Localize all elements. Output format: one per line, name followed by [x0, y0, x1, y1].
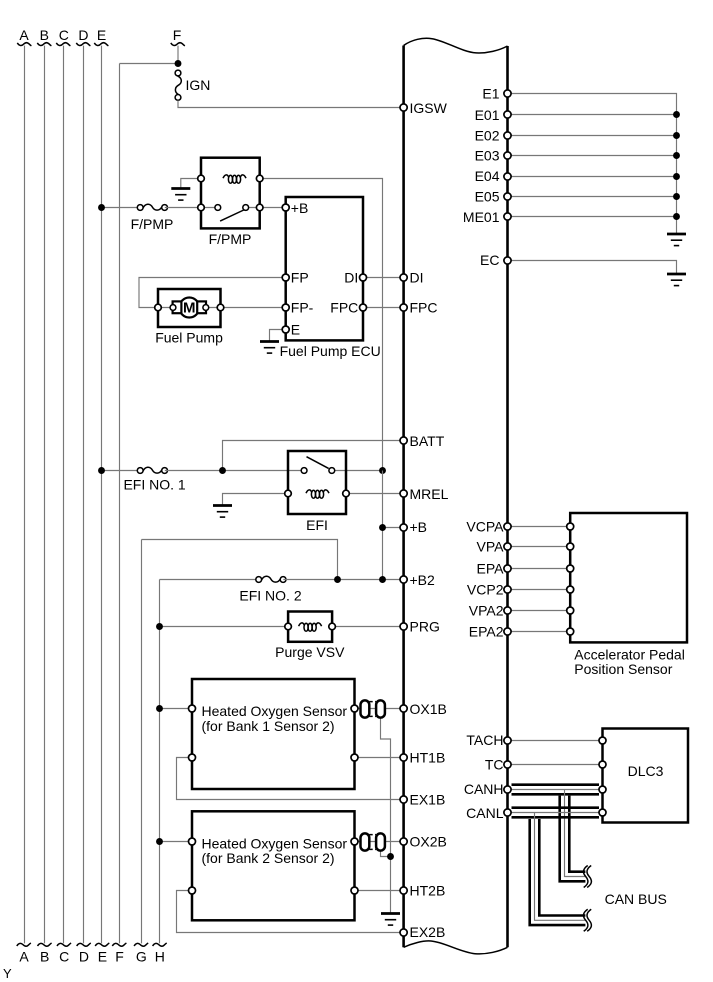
wire shield drain OX1B [381, 716, 391, 913]
wire sensor1 ground return to EX1B [177, 758, 404, 800]
svg-text:Fuel Pump: Fuel Pump [155, 330, 223, 346]
wire E01 [508, 114, 677, 116]
wire IGN to IGSW [178, 100, 404, 107]
wire ME01 [508, 216, 677, 218]
svg-text:EC: EC [480, 252, 499, 268]
wire CAN bus branch 1 shield [560, 796, 586, 882]
node junction E03 [673, 152, 680, 159]
wire CAN bus branch 2 shield [530, 819, 586, 925]
wire FP pin to fuel pump [139, 278, 286, 308]
wire H tap to sensor 2 [160, 841, 193, 843]
ground fuel pump ECU E [260, 342, 279, 354]
wire +B2 row [160, 579, 259, 581]
svg-text:(for Bank 1 Sensor 2): (for Bank 1 Sensor 2) [202, 718, 335, 734]
wire FPC to ECM [363, 307, 404, 309]
wire sensor2 to OX2B through shield connector [355, 841, 404, 843]
solenoid Purge VSV [288, 612, 332, 642]
svg-text:PRG: PRG [410, 619, 440, 635]
svg-text:H: H [155, 949, 165, 965]
ECM pin HT1B [400, 754, 407, 761]
node junction ME01 [673, 213, 680, 220]
node junction H/PRG [156, 623, 163, 630]
svg-text:E05: E05 [475, 189, 500, 205]
ground EFI relay coil [213, 506, 232, 518]
svg-text:IGSW: IGSW [410, 100, 448, 116]
wire +B tap [383, 527, 404, 529]
heated oxygen sensor bank2 box [192, 811, 355, 920]
wire sensor1 to OX1B through shield connector [355, 708, 404, 710]
svg-text:C: C [59, 27, 69, 43]
ECM pin E03 [504, 152, 511, 159]
svg-text:VCP2: VCP2 [467, 582, 504, 598]
wire E1 to ground bus [508, 94, 677, 217]
svg-text:EX2B: EX2B [410, 924, 446, 940]
fuse EFI NO. 2 [256, 576, 286, 582]
node junction E02 [673, 132, 680, 139]
node H (bottom connector) [153, 943, 167, 946]
svg-text:EPA2: EPA2 [469, 624, 504, 640]
wire fuse EFI NO.2 to +B2 pin [283, 579, 403, 581]
wire EPA [508, 568, 571, 570]
ECM pin EX2B [400, 929, 407, 936]
ECM pin OX1B [400, 705, 407, 712]
wire F horizontal to rail [120, 63, 179, 65]
svg-text:DLC3: DLC3 [628, 763, 664, 779]
wire CANL shield pair [512, 806, 600, 809]
node junction E01 [673, 111, 680, 118]
ECM pin PRG [400, 623, 407, 630]
svg-text:OX2B: OX2B [410, 834, 447, 850]
wire VPA2 [508, 610, 571, 612]
svg-text:D: D [79, 949, 89, 965]
wire E03 [508, 155, 677, 157]
svg-text:Fuel Pump ECU: Fuel Pump ECU [280, 343, 381, 359]
svg-text:E: E [291, 321, 300, 337]
wire EPA2 [508, 631, 571, 633]
ECM pin OX2B [400, 838, 407, 845]
coil of relay EFI [306, 490, 329, 498]
ground EC [667, 274, 686, 286]
heated oxygen sensor bank1 box [192, 679, 355, 789]
ECM pin E05 [504, 193, 511, 200]
node junction E05 [673, 193, 680, 200]
wire TACH [508, 740, 603, 742]
connector DLC3 box [603, 729, 689, 823]
svg-text:EX1B: EX1B [410, 791, 446, 807]
wire VCP2 [508, 589, 571, 591]
wire G feeder from +B2 [142, 540, 338, 580]
wire MREL to EFI relay coil [346, 493, 404, 495]
ECM bottom torn edge [404, 941, 508, 954]
svg-text:HT2B: HT2B [410, 883, 446, 899]
break CAN bus branch 2 [583, 909, 591, 931]
wire CANH shield pair [512, 783, 600, 786]
svg-text:E01: E01 [475, 107, 500, 123]
svg-text:MREL: MREL [410, 486, 449, 502]
ECM pin E02 [504, 132, 511, 139]
svg-text:D: D [78, 27, 88, 43]
svg-text:E03: E03 [475, 148, 500, 164]
wire E05 [508, 196, 677, 198]
wire DI to ECM [363, 277, 404, 279]
node C (bottom connector) [57, 943, 71, 946]
ECM pin IGSW [400, 104, 407, 111]
wire E rail to EFI NO.1 fuse [102, 470, 141, 472]
wire EFI relay coil to ground [223, 494, 289, 505]
node junction BATT tap [219, 467, 226, 474]
wire E rail tap to F/PMP fuse [102, 207, 141, 209]
fuel pump ECU box [286, 197, 363, 340]
ground engine ground bus [667, 234, 686, 246]
motor M fuel pump [179, 298, 199, 318]
node junction G feeder [334, 576, 341, 583]
svg-text:EFI NO. 2: EFI NO. 2 [239, 588, 301, 604]
svg-text:B: B [40, 949, 49, 965]
svg-text:EFI: EFI [306, 517, 328, 533]
wire rail F [119, 64, 121, 944]
node junction H/sensor2 [156, 838, 163, 845]
svg-text:Y: Y [3, 966, 12, 981]
svg-text:FPC: FPC [330, 299, 358, 315]
wire shield drain OX2B [381, 849, 391, 857]
svg-text:HT1B: HT1B [410, 750, 446, 766]
svg-text:C: C [59, 949, 69, 965]
relay EFI [288, 451, 346, 514]
wire rail E [101, 46, 103, 944]
svg-text:FP-: FP- [291, 299, 314, 315]
svg-text:BATT: BATT [410, 433, 445, 449]
svg-text:ME01: ME01 [463, 209, 500, 225]
wire TC [508, 764, 603, 766]
wire ground bus stem [676, 217, 678, 234]
ECM pin TACH [504, 737, 511, 744]
svg-text:FPC: FPC [410, 299, 438, 315]
wire fuel pump to FP- pin [221, 307, 286, 309]
shielded connector OX2B [361, 833, 370, 850]
svg-text:F/PMP: F/PMP [209, 231, 252, 247]
svg-text:FP: FP [291, 270, 309, 286]
ground shield drain [381, 914, 400, 926]
svg-text:+B2: +B2 [410, 572, 436, 588]
svg-text:DI: DI [344, 270, 358, 286]
node junction E/EFI NO.1 [98, 467, 105, 474]
break CAN bus branch 1 [583, 866, 591, 888]
coil of relay F/PMP [223, 175, 246, 183]
svg-text:Heated Oxygen Sensor: Heated Oxygen Sensor [202, 703, 348, 719]
fuse EFI NO. 1 [137, 467, 167, 473]
ECM pin E01 [504, 111, 511, 118]
svg-text:Purge VSV: Purge VSV [275, 644, 345, 660]
wire +B feeder vertical [382, 471, 384, 580]
wire CANH center [508, 789, 603, 791]
svg-text:F: F [115, 949, 124, 965]
ECM pin E04 [504, 173, 511, 180]
wire rail C [63, 46, 65, 944]
node junction F/IGN [175, 60, 182, 67]
wire rail B [44, 46, 46, 944]
svg-text:EFI NO. 1: EFI NO. 1 [123, 477, 185, 493]
ECM pin E1 [504, 90, 511, 97]
wire EC to ground [508, 261, 677, 274]
svg-text:E02: E02 [475, 127, 500, 143]
wire E02 [508, 135, 677, 137]
fuel pump motor wire [158, 307, 221, 309]
svg-text:E: E [97, 27, 106, 43]
fuse F/PMP [137, 204, 167, 210]
ECM pin EX1B [400, 796, 407, 803]
wire CANL center [508, 812, 603, 814]
ECM pin VPA2 [504, 607, 511, 614]
wire relay coil output right then down to EFI junction [260, 179, 383, 471]
svg-text:Heated Oxygen Sensor: Heated Oxygen Sensor [202, 836, 348, 852]
ECM pin HT2B [400, 887, 407, 894]
wire PRG row to purge VSV [160, 626, 289, 628]
wire rail G [141, 540, 143, 944]
svg-text:CANL: CANL [466, 805, 504, 821]
svg-text:CAN BUS: CAN BUS [605, 891, 667, 907]
svg-text:IGN: IGN [186, 77, 211, 93]
wire rail A [24, 46, 26, 944]
ECM top torn edge [404, 38, 508, 53]
svg-text:+B: +B [291, 200, 309, 216]
node junction EFI relay output [379, 467, 386, 474]
ECM pin CANL [504, 809, 511, 816]
svg-text:+B: +B [410, 519, 428, 535]
wire F stem [177, 46, 179, 64]
accelerator pedal position sensor box [570, 513, 687, 642]
ECM pin EPA2 [504, 628, 511, 635]
ECM pin ME01 [504, 213, 511, 220]
ECM pin BATT [400, 437, 407, 444]
svg-text:VPA: VPA [477, 539, 505, 555]
ECM pin VCP2 [504, 586, 511, 593]
svg-text:F: F [173, 27, 182, 43]
svg-text:VPA2: VPA2 [469, 603, 504, 619]
wire rail H [159, 580, 161, 944]
wire fuse to relay F/PMP [165, 207, 218, 209]
ground F/PMP relay coil [171, 189, 190, 201]
ECM pin +B [400, 524, 407, 531]
svg-text:F/PMP: F/PMP [131, 216, 174, 232]
node junction E04 [673, 173, 680, 180]
node F (bottom connector) [112, 943, 126, 946]
wire rail D [83, 46, 85, 944]
node junction +B [379, 524, 386, 531]
svg-text:CANH: CANH [464, 781, 504, 797]
ECM pin EC [504, 257, 511, 264]
node junction E/F-PMP [98, 204, 105, 211]
svg-text:Position Sensor: Position Sensor [574, 661, 672, 677]
ECM pin FPC [400, 304, 407, 311]
svg-text:E04: E04 [475, 168, 500, 184]
wire BATT to EFI NO.1 line [223, 441, 404, 471]
ECM pin TC [504, 761, 511, 768]
ECM pin VPA [504, 543, 511, 550]
pin circles relay F/PMP [198, 175, 205, 182]
shielded connector OX1B [361, 700, 370, 717]
wire relay coil to ground [181, 179, 201, 188]
wire CAN bus branch 1 center [565, 790, 587, 877]
svg-text:B: B [40, 27, 49, 43]
node B (bottom connector) [38, 943, 52, 946]
ECM pin VCPA [504, 523, 511, 530]
svg-text:E: E [98, 949, 107, 965]
pin circles fuel pump ECU [282, 204, 289, 211]
fuel pump box [158, 289, 221, 327]
ECM left edge [402, 46, 405, 948]
svg-text:M: M [183, 300, 196, 317]
wire sensor2 to HT2B [355, 890, 404, 892]
wire relay switch output to +B [246, 207, 286, 209]
ECM right edge [506, 46, 509, 947]
ECM pin +B2 [400, 576, 407, 583]
svg-text:TC: TC [485, 756, 504, 772]
wire CAN bus branch 2 center [535, 813, 587, 921]
switch blade of relay F/PMP [220, 210, 245, 222]
wire sensor2 ground return to EX2B [177, 891, 404, 933]
svg-text:OX1B: OX1B [410, 701, 447, 717]
wire EFI relay switch to +B feeder [332, 470, 383, 472]
wire VPA [508, 546, 571, 548]
node G (bottom connector) [134, 943, 148, 946]
ECM pin EPA [504, 565, 511, 572]
ECM pin MREL [400, 490, 407, 497]
wire purge VSV to PRG pin [332, 626, 404, 628]
ECM pin DI [400, 274, 407, 281]
wire VCPA [508, 526, 571, 528]
node junction H/sensor1 [156, 705, 163, 712]
svg-text:TACH: TACH [466, 732, 503, 748]
node junction +B2 [379, 576, 386, 583]
svg-text:E1: E1 [482, 86, 499, 102]
switch blade of relay EFI [307, 457, 329, 469]
svg-text:(for Bank 2 Sensor 2): (for Bank 2 Sensor 2) [202, 850, 335, 866]
wire E pin to ground [270, 330, 286, 341]
node D (bottom connector) [77, 943, 91, 946]
fuse IGN [175, 70, 181, 100]
wire fuse to EFI relay switch [165, 470, 304, 472]
node A (bottom connector) [17, 943, 31, 946]
wire E04 [508, 176, 677, 178]
node junction shield drains [387, 853, 394, 860]
ECM pin CANH [504, 786, 511, 793]
svg-text:A: A [19, 27, 29, 43]
svg-text:DI: DI [410, 270, 424, 286]
node E (bottom connector) [95, 943, 109, 946]
svg-text:VCPA: VCPA [466, 518, 504, 534]
wire sensor1 to HT1B [355, 757, 404, 759]
svg-text:A: A [19, 949, 29, 965]
wire H tap to sensor 1 [160, 708, 193, 710]
svg-text:EPA: EPA [477, 561, 505, 577]
svg-text:G: G [136, 949, 147, 965]
relay F/PMP [201, 158, 260, 229]
